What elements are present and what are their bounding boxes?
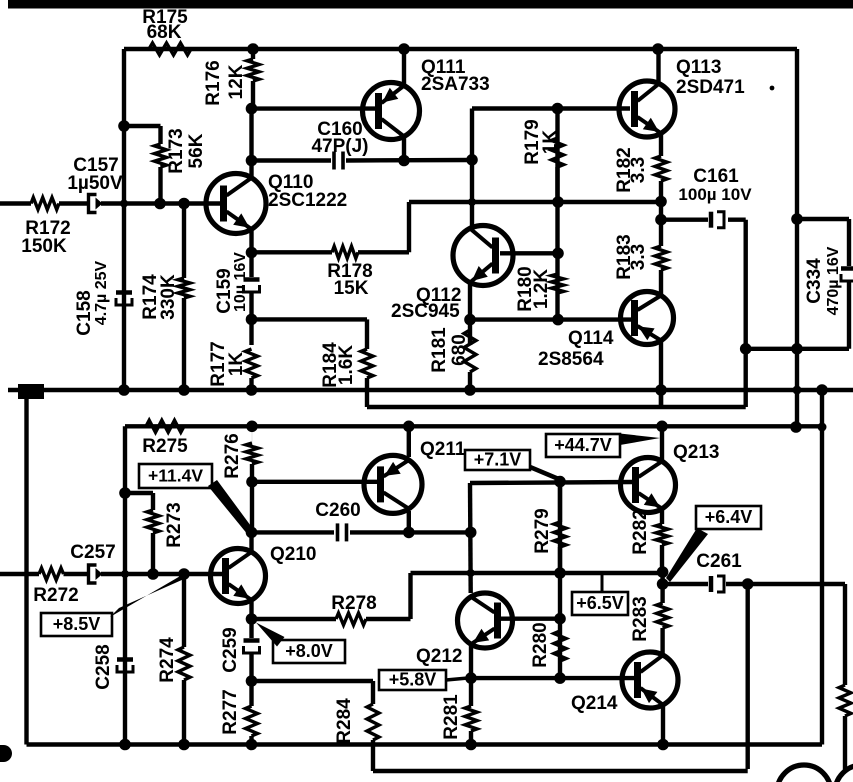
svg-text:1.2K: 1.2K [531, 269, 552, 309]
svg-text:R173: R173 [166, 128, 187, 173]
svg-text:2SC945: 2SC945 [391, 301, 460, 322]
svg-text:1µ50V: 1µ50V [67, 173, 123, 194]
callout +5.8V [379, 670, 446, 690]
resistor R179 [557, 109, 559, 139]
wire Q112 base [500, 251, 558, 255]
wire input ch2 [0, 572, 39, 576]
svg-text:1.6K: 1.6K [336, 345, 357, 385]
svg-text:Q113: Q113 [676, 57, 721, 78]
node Q211 base feed [246, 476, 258, 488]
resistor R274 [182, 574, 186, 647]
capacitor C334 [841, 266, 853, 271]
svg-text:C158: C158 [74, 290, 95, 335]
wire Q211 collector [407, 511, 411, 532]
node rail end ch2 [790, 421, 802, 433]
resistor R275 [146, 420, 184, 432]
resistor R283 [657, 603, 669, 628]
capacitor C257 [89, 565, 97, 583]
wire mid ch1 [409, 200, 661, 204]
svg-text:+8.0V: +8.0V [285, 641, 333, 661]
svg-text:R279: R279 [532, 508, 553, 553]
wire Q213 base feed [470, 482, 633, 483]
node mid-x470 [467, 569, 475, 577]
svg-text:+44.7V: +44.7V [554, 435, 612, 455]
node R282 bottom [657, 566, 669, 578]
node R278 branch [246, 613, 258, 625]
callout +8.0V [273, 640, 345, 663]
node R279 R280 mid [554, 567, 566, 579]
transistor Q112 [453, 226, 513, 286]
wire Q213 collector [660, 426, 664, 460]
svg-text:12K: 12K [226, 64, 247, 99]
node Q213 collector top [656, 421, 668, 433]
wire Q211 base [252, 480, 378, 484]
svg-text:R280: R280 [530, 622, 551, 667]
svg-text:R181: R181 [429, 327, 450, 373]
resistor R277 [246, 706, 258, 736]
resistor R184 [361, 349, 373, 378]
svg-text:+6.5V: +6.5V [576, 593, 624, 613]
node R178 branch [246, 247, 258, 259]
node Q112 emitter junction [464, 314, 476, 326]
wire R279-R280 link [558, 482, 562, 678]
svg-text:C261: C261 [696, 551, 742, 572]
resistor R177 [246, 349, 258, 378]
node rail x822 [816, 384, 828, 396]
wire R178 net [252, 250, 333, 254]
node R176 top [247, 43, 259, 55]
svg-text:680: 680 [449, 334, 470, 366]
wire C260 net [252, 530, 335, 534]
partial glyph bottom left [0, 745, 12, 762]
resistor R276 [251, 426, 253, 443]
speck [770, 86, 775, 91]
node R184 branch [246, 314, 258, 326]
node R279 top [554, 476, 566, 488]
node rail R181 [464, 384, 476, 396]
callout +6.5V [572, 592, 628, 615]
svg-text:68K: 68K [147, 22, 182, 43]
transistor partial bottom right 2 [835, 765, 853, 782]
callout +44.7V [546, 434, 620, 457]
wire bottom rail ch2 [27, 742, 823, 746]
resistor R280 [554, 631, 566, 661]
resistor R272 [39, 568, 64, 580]
border bar top [8, 0, 853, 9]
node R174 top [178, 198, 190, 210]
wire R273 jog [125, 491, 153, 495]
wire output ch1 [746, 347, 849, 351]
node rail R281 ch2 [465, 739, 477, 751]
wire R284 net [252, 679, 374, 683]
resistor R172 [31, 198, 59, 210]
svg-text:R283: R283 [630, 596, 651, 641]
wire Q211 emitter [407, 426, 411, 457]
transistor Q212 [458, 593, 513, 648]
node Q214 emitter rail [657, 739, 669, 751]
wire C161 net [661, 217, 708, 221]
capacitor C258 [117, 657, 133, 662]
svg-text:C258: C258 [93, 644, 114, 689]
node Q211 collector [403, 527, 415, 539]
node Q113 collector top [652, 43, 664, 55]
wire Q113 base feed [472, 106, 630, 110]
transistor Q114 [621, 292, 674, 345]
node R182 bottom [655, 196, 667, 208]
node R179 R180 mid [552, 196, 564, 208]
svg-text:R284: R284 [334, 698, 355, 744]
wire Q112 emitter [468, 283, 472, 345]
node R274 top [178, 568, 190, 580]
svg-text:3.3: 3.3 [628, 244, 649, 270]
capacitor C158 [123, 204, 125, 291]
wire Q110 emitter [249, 230, 253, 277]
wire C261 down [746, 584, 750, 769]
node C260 wire left [246, 527, 258, 539]
node C160 wire left [246, 155, 258, 167]
wire Q113 collector [656, 49, 660, 83]
node R284 branch [246, 675, 258, 687]
node rail R277 ch2 [246, 739, 258, 751]
capacitor C261 [709, 576, 714, 592]
svg-text:+11.4V: +11.4V [148, 466, 203, 486]
svg-text:R272: R272 [33, 585, 78, 606]
capacitor C260 [336, 523, 340, 541]
wire Q212 base [500, 617, 560, 621]
svg-text:47P(J): 47P(J) [311, 136, 368, 157]
node Q212 emitter junction [465, 672, 477, 684]
node C261 branch [657, 578, 669, 590]
svg-text:Q114: Q114 [568, 328, 614, 349]
node output-rail cross [791, 343, 803, 355]
svg-text:2SA733: 2SA733 [421, 74, 490, 95]
resistor R284 [367, 704, 379, 740]
node rail-R273 jog [119, 487, 131, 499]
callout +6.4V [696, 506, 761, 529]
node R273 base [147, 568, 159, 580]
svg-text:+7.1V: +7.1V [474, 450, 522, 470]
wire Q111 collector [402, 137, 406, 161]
wire left rail ch1 [122, 49, 126, 390]
svg-text:Q212: Q212 [416, 646, 462, 667]
svg-text:15K: 15K [334, 278, 369, 299]
node C161 branch [655, 214, 667, 226]
svg-text:2SC1222: 2SC1222 [268, 190, 347, 211]
capacitor C160 [332, 152, 336, 170]
node C260 right T [465, 527, 477, 539]
wire stub Q114-jumper [659, 390, 663, 407]
transistor Q211 [364, 455, 422, 513]
node C160 right T [466, 154, 478, 166]
node rail R177 [246, 384, 258, 396]
svg-text:3.3: 3.3 [628, 157, 649, 183]
resistor R281 [465, 706, 477, 731]
svg-text:2S8564: 2S8564 [538, 349, 604, 370]
wire right rail ch1 [795, 49, 799, 427]
transistor Q110 [206, 174, 266, 234]
svg-text:2SD471: 2SD471 [676, 77, 745, 98]
wire Q111 base [252, 106, 379, 110]
svg-text:Q210: Q210 [270, 544, 316, 565]
wire C159 bottom [249, 291, 253, 345]
node Q112 base [552, 248, 564, 260]
wire Q214 emitter [661, 705, 665, 745]
wire bottom rail ch1 [8, 388, 853, 392]
wire top supply ch1 [124, 47, 797, 51]
node x822 top rail ch2 [818, 423, 827, 432]
svg-text:100µ 10V: 100µ 10V [678, 185, 752, 204]
svg-text:C259: C259 [220, 627, 241, 672]
wire Q210 emitter [249, 600, 253, 638]
svg-text:150K: 150K [21, 236, 67, 257]
node R276 top [246, 421, 258, 433]
resistor R282 [660, 509, 664, 524]
svg-text:+8.5V: +8.5V [53, 614, 101, 634]
node Q212 base [554, 613, 566, 625]
node R173 base [154, 198, 166, 210]
callout +8.5V [41, 613, 112, 636]
wire R182-R183 link [659, 202, 663, 246]
resistor R182 [659, 131, 663, 156]
wire R282-R283 link [660, 573, 664, 603]
transistor Q214 [622, 652, 678, 708]
node rail R274 ch2 [178, 739, 190, 751]
svg-text:R282: R282 [630, 509, 651, 554]
node rail-R173 jog [118, 120, 130, 132]
svg-text:R274: R274 [157, 637, 178, 683]
node Q111 base feed [246, 103, 258, 115]
node R179 top [552, 103, 564, 115]
svg-text:R278: R278 [331, 593, 376, 614]
svg-text:C334: C334 [804, 258, 825, 304]
wire C160 net [252, 158, 332, 162]
svg-text:R281: R281 [441, 694, 462, 740]
resistor R279 [558, 482, 562, 522]
svg-text:56K: 56K [186, 133, 207, 168]
wire R278 net [252, 617, 337, 621]
callout +11.4V [139, 464, 212, 488]
svg-text:+6.4V: +6.4V [705, 507, 753, 527]
wire C259 bottom [249, 652, 253, 706]
node Q211 emitter top [403, 421, 415, 433]
wire R184 net [252, 317, 368, 321]
node Q114 emitter rail [655, 384, 667, 396]
resistor R273 [151, 493, 155, 510]
wire emitter net ch2 [471, 676, 635, 680]
wire left rail ch2 [123, 426, 127, 744]
resistor R183 [655, 246, 667, 270]
svg-text:C257: C257 [70, 542, 115, 563]
node rail C158 [118, 384, 130, 396]
svg-text:R176: R176 [203, 60, 224, 105]
resistor R175 [149, 43, 191, 55]
node rail cross input ch1 [120, 200, 128, 208]
capacitor C259 [244, 638, 260, 643]
node Q111 collector [398, 155, 410, 167]
node rail cross input ch2 [121, 570, 129, 578]
wire Q114 emitter [659, 340, 663, 407]
node C334 branch [791, 213, 803, 225]
resistor partial right edge [843, 584, 847, 685]
svg-text:C161: C161 [693, 166, 739, 187]
wire R173 jog [124, 124, 161, 128]
transistor Q113 [619, 81, 675, 137]
resistor R174 [182, 204, 186, 279]
node mid-x472 [468, 198, 476, 206]
node R180 bottom [552, 314, 564, 326]
svg-text:R276: R276 [222, 433, 243, 478]
wire mid ch2 [411, 571, 663, 575]
stub left ch1 [18, 384, 44, 399]
svg-text:+5.8V: +5.8V [389, 670, 437, 690]
svg-text:1K: 1K [226, 352, 247, 377]
svg-text:10µ 16V: 10µ 16V [232, 252, 249, 312]
wire R276-Q210 link [250, 482, 254, 533]
wire C334 top [797, 217, 849, 221]
resistor R178 [332, 246, 358, 258]
wire Q113 emitter [660, 133, 662, 156]
wire bottom jumper ch2 [373, 769, 748, 773]
wire emitter net ch1 [470, 317, 632, 321]
node output branch ch1 [740, 343, 752, 355]
node rail cross bottom ch1 [793, 386, 802, 395]
wire C261 net [663, 582, 708, 586]
svg-text:R273: R273 [164, 502, 185, 547]
svg-text:Q214: Q214 [571, 693, 618, 714]
resistor R180 [552, 274, 564, 293]
svg-text:R275: R275 [142, 436, 188, 457]
transistor Q111 [363, 83, 420, 140]
resistor R181 [464, 330, 476, 372]
resistor R176 [251, 49, 255, 59]
node Q111 emitter top [398, 43, 410, 55]
wire Q212 emitter [469, 645, 473, 706]
wire left rail outer ch2 [24, 390, 28, 745]
capacitor C157 [89, 195, 97, 213]
svg-text:470µ 16V: 470µ 16V [825, 246, 842, 315]
capacitor C159 [244, 277, 260, 282]
wire Q111 emitter [402, 49, 406, 84]
svg-text:Q213: Q213 [673, 442, 719, 463]
svg-text:C260: C260 [315, 500, 360, 521]
wire Q210 collector [249, 532, 253, 552]
node C261 out [742, 578, 754, 590]
capacitor C161 [709, 212, 714, 228]
wire right rail ch2 [820, 390, 824, 745]
svg-text:R277: R277 [220, 689, 241, 734]
resistor R278 [336, 613, 366, 625]
wire bottom jumper ch1 [367, 405, 746, 409]
transistor Q210 [211, 549, 266, 604]
node R280 bottom [554, 672, 566, 684]
transistor partial bottom right [777, 765, 831, 782]
wire R179-R180 link [555, 109, 559, 320]
svg-text:Q211: Q211 [420, 439, 466, 460]
wire top rail ch2 [125, 424, 822, 428]
callout +7.1V [465, 450, 530, 470]
wire input ch1 [0, 201, 31, 205]
transistor Q213 [621, 458, 676, 513]
wire Q110 collector [249, 109, 253, 177]
resistor R173 [158, 126, 162, 144]
node rail R174 [178, 384, 190, 396]
svg-text:330K: 330K [158, 274, 179, 320]
svg-text:4.7µ 25V: 4.7µ 25V [93, 260, 110, 325]
node rail C258 ch2 [119, 739, 131, 751]
